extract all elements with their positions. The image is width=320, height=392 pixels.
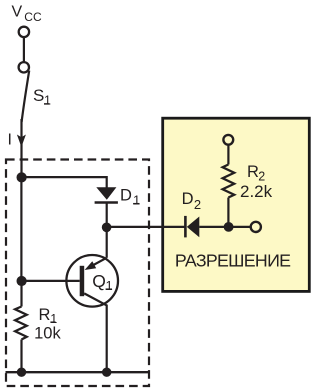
wire base of Q1 to node C bbox=[21, 280, 79, 282]
node A junction bbox=[17, 172, 27, 182]
node C junction bbox=[17, 276, 27, 286]
wire VCC terminal to switch pole bbox=[23, 38, 25, 62]
yellow enable box bbox=[163, 118, 310, 291]
svg-text:CC: CC bbox=[24, 10, 42, 24]
terminal R2 top bbox=[223, 135, 233, 145]
svg-text:V: V bbox=[12, 4, 23, 21]
svg-text:D: D bbox=[120, 187, 132, 205]
svg-text:РАЗРЕШЕНИЕ: РАЗРЕШЕНИЕ bbox=[175, 250, 291, 270]
transistor Q1 collector lead bbox=[84, 293, 107, 372]
wire node A to node C (left rail) bbox=[20, 178, 22, 282]
svg-text:R: R bbox=[39, 306, 51, 324]
wire D2 anode to node D bbox=[199, 226, 228, 228]
svg-text:S: S bbox=[33, 86, 44, 105]
svg-text:10k: 10k bbox=[34, 324, 61, 342]
diode D2 bbox=[184, 216, 187, 238]
resistor R1 bbox=[15, 307, 27, 340]
wire node C to R1 bbox=[20, 282, 22, 307]
wire node B to D2 cathode bbox=[107, 226, 185, 228]
wire switch to node A bbox=[20, 119, 22, 178]
wire node D to enable terminal bbox=[228, 226, 250, 228]
svg-text:2: 2 bbox=[194, 197, 201, 212]
wire R2 to node D bbox=[227, 198, 229, 228]
terminal enable input bbox=[251, 222, 261, 232]
transistor Q1 emitter lead with arrow bbox=[89, 258, 107, 268]
node B junction bbox=[102, 223, 112, 233]
bottom rail wire bbox=[6, 371, 149, 373]
dashed enclosure bbox=[6, 160, 149, 387]
diode D1 bbox=[96, 187, 116, 200]
svg-text:2.2k: 2.2k bbox=[240, 182, 273, 201]
svg-text:1: 1 bbox=[106, 278, 113, 293]
switch S1 pole terminal bbox=[19, 62, 29, 72]
svg-text:Q: Q bbox=[92, 271, 106, 291]
svg-text:I: I bbox=[8, 132, 12, 149]
junction collector bottom bbox=[102, 368, 111, 377]
switch S1 blade bbox=[22, 71, 30, 122]
terminal VCC bbox=[19, 27, 29, 37]
wire R1 to ground rail bbox=[20, 340, 22, 373]
transistor Q1 base bar bbox=[80, 266, 85, 296]
svg-text:1: 1 bbox=[44, 94, 51, 108]
node D junction bbox=[224, 222, 234, 232]
svg-text:R: R bbox=[247, 163, 259, 181]
wire R2 terminal to R2 bbox=[227, 145, 229, 164]
svg-text:1: 1 bbox=[133, 192, 140, 207]
wire node B to Q1 emitter bbox=[106, 228, 108, 258]
svg-text:D: D bbox=[182, 190, 194, 208]
current arrow I bbox=[17, 135, 26, 148]
transistor Q1 body bbox=[66, 255, 118, 307]
wire node A to D1 anode (top horizontal) bbox=[21, 177, 106, 189]
junction R1 bottom bbox=[17, 368, 26, 377]
wire D1 cathode to node B bbox=[106, 203, 108, 229]
resistor R2 bbox=[223, 165, 235, 198]
